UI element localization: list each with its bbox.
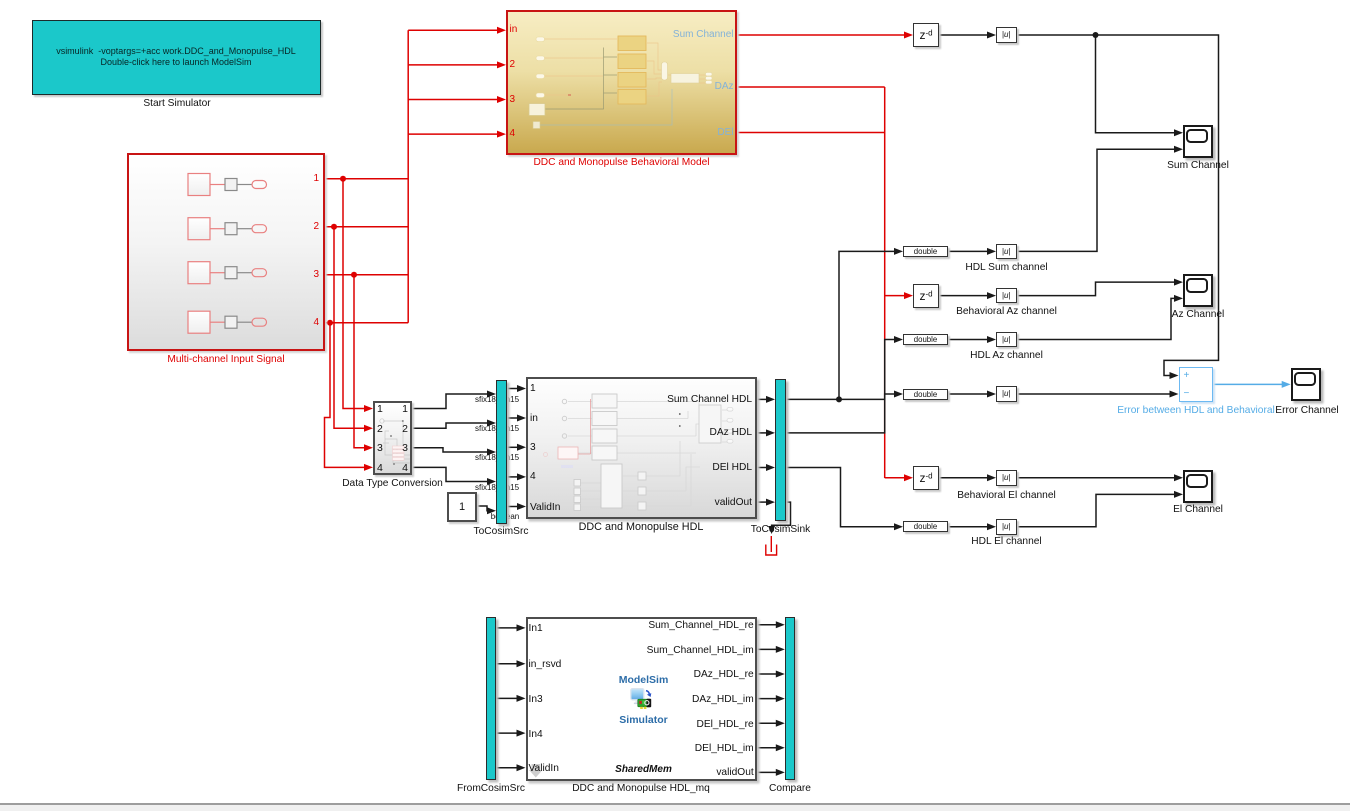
- behavioral mini diagram: [544, 39, 706, 96]
- port label In4: [529, 730, 543, 740]
- wire: DTC out1 to ToCosimSrc: [412, 394, 488, 409]
- port label ValidIn: [530, 503, 560, 513]
- wire: HDL out to ToCosimSink y=502.1: [757, 501, 768, 503]
- port label In1: [529, 624, 543, 634]
- label Data Type Conversion: [322, 478, 463, 489]
- wire: validOut wrap-around stub: [772, 502, 791, 526]
- label Error Channel: [1262, 405, 1350, 416]
- wire: source port 2 to bus: [325, 226, 408, 228]
- port label DAz_HDL_im: [692, 695, 754, 705]
- abs block |u| y=295.6: [996, 288, 1017, 304]
- label DDC and Monopulse HDL_mq: [551, 783, 731, 794]
- scope Az Channel: [1183, 274, 1213, 307]
- wire: source port 1 to bus: [325, 178, 408, 180]
- wire: bus to behavioral port 3: [408, 99, 498, 101]
- wire: sink out2 up to double2 HDL Az: [786, 340, 895, 433]
- port label 3: [510, 95, 516, 105]
- port label 2: [510, 60, 516, 70]
- port label validOut: [716, 768, 753, 778]
- wire: ToCosimSrc out to HDL port y=418: [506, 417, 518, 419]
- block Data Type Conversion: [373, 401, 412, 476]
- port label DAz HDL: [710, 428, 752, 438]
- text ModelSim: [588, 674, 700, 686]
- wire label boolean: [470, 512, 540, 521]
- label Behavioral El channel: [946, 490, 1067, 501]
- label Compare: [750, 783, 830, 794]
- port label In3: [529, 695, 543, 705]
- signal-spec bar ToCosimSink: [775, 379, 786, 521]
- wire: delay to abs y=477.8: [939, 477, 988, 479]
- icon ModelSim simulator: [630, 688, 656, 713]
- port label in_rsvd: [529, 660, 562, 670]
- abs block |u| y=339.5: [996, 332, 1017, 348]
- subsystem DDC and Monopulse HDL: [526, 377, 757, 519]
- label Start Simulator: [97, 98, 257, 109]
- port label DEl_HDL_re: [697, 720, 754, 730]
- wire: DTC out2 to ToCosimSrc: [412, 423, 488, 428]
- port 2 in: [377, 424, 383, 435]
- wire: DTC out4 to ToCosimSrc: [412, 467, 488, 481]
- delay block Z2 z^-d: [913, 284, 939, 308]
- port 4 out: [402, 463, 408, 474]
- abs block |u| y=526.8: [996, 519, 1017, 535]
- signal-spec bar ToCosimSrc: [496, 380, 507, 524]
- DTC mini diagram: [380, 418, 415, 462]
- port label 3: [530, 443, 536, 453]
- scope El Channel: [1183, 470, 1213, 503]
- scope Error Channel: [1291, 368, 1321, 401]
- wire: abs4 to sum - input: [1017, 393, 1171, 395]
- wire label sfix18_En15 y=482.7: [462, 483, 532, 492]
- source icon row cy=182.5: [188, 174, 210, 196]
- wire: abs1 out long route to sum + input: [1017, 35, 1219, 376]
- port label Sum Channel: [673, 30, 734, 40]
- wire: HDL_mq out to Compare y=624.8: [757, 624, 777, 626]
- wire: Behavioral El abs to El scope in1: [1017, 477, 1176, 479]
- wire: HDL out to ToCosimSink y=399.4: [757, 398, 768, 400]
- wire: source port 4 to bus: [325, 322, 408, 324]
- HDL mini diagram: [568, 402, 728, 508]
- port label 1: [530, 384, 536, 394]
- wire: HDL El abs to El scope in2: [1017, 494, 1176, 526]
- block Start Simulator: [32, 20, 321, 95]
- port label Sum_Channel_HDL_im: [647, 646, 754, 656]
- port label 3: [313, 270, 319, 280]
- wire: HDL_mq out to Compare y=723.2: [757, 722, 777, 724]
- wire label sfix18_En15 y=453.2: [462, 453, 532, 462]
- wire: HDL Az abs to Az scope in2: [1017, 298, 1176, 339]
- port label 4: [530, 472, 536, 482]
- data type display block double y=251.4: [903, 246, 948, 257]
- signal-spec bar Compare: [785, 617, 796, 780]
- abs block |u| y=477.8: [996, 470, 1017, 486]
- wire: HDL Sum abs to Sum scope in2: [1017, 149, 1176, 251]
- wire: HDL_mq out to Compare y=649.4: [757, 648, 777, 650]
- wire: ToCosimSrc out to HDL port y=388.5: [506, 388, 518, 390]
- junction dot port1: [340, 176, 346, 182]
- junction dot port2: [331, 224, 337, 230]
- wire: HDL_mq out to Compare y=772.4: [757, 771, 777, 773]
- wire label sfix18_En15 y=424.2: [462, 424, 532, 433]
- port label Sum Channel HDL: [667, 395, 752, 405]
- label FromCosimSrc: [434, 783, 548, 794]
- wire: HDL_mq out to Compare y=747.8: [757, 747, 777, 749]
- source icon row cy=270.7: [188, 262, 210, 284]
- wire: Sum Channel out to delay Z1: [737, 34, 905, 36]
- data type display block double y=394: [903, 389, 948, 400]
- label HDL Sum channel: [956, 262, 1057, 273]
- wire: ToCosimSrc out to HDL port y=476.9: [506, 476, 518, 478]
- subsystem DDC and Monopulse Behavioral Model: [506, 10, 737, 155]
- wire: HDL out to ToCosimSink y=467.5: [757, 467, 768, 469]
- port 1 in: [377, 404, 383, 415]
- port label DEl HDL: [712, 463, 752, 473]
- wire: double to abs y=339.5: [948, 339, 988, 341]
- label Error between HDL and Behavioral: [1110, 405, 1282, 416]
- wire: FromCosimSrc to HDL_mq in y=663.8: [496, 663, 518, 665]
- wire: delay to abs y=295.6: [939, 295, 988, 297]
- data type display block double y=526.8: [903, 521, 948, 532]
- wire: branch down to Sum scope in1: [1096, 35, 1176, 133]
- wire: bus to behavioral port in: [408, 29, 498, 31]
- wire: branch port3 down to DTC in3: [354, 275, 365, 448]
- port 4 in: [377, 463, 383, 474]
- wire: FromCosimSrc to HDL_mq in y=733.1: [496, 732, 518, 734]
- abs block |u| y=394: [996, 386, 1017, 402]
- port label 2: [313, 222, 319, 232]
- port label validOut: [715, 498, 752, 508]
- wire: DEl out to red vertical: [737, 132, 885, 134]
- port label 1: [313, 174, 319, 184]
- label El Channel: [1148, 504, 1248, 515]
- port label Sum_Channel_HDL_re: [648, 621, 753, 631]
- abs block |u| y=251.4: [996, 244, 1017, 260]
- wire: HDL_mq out to Compare y=674.0: [757, 673, 777, 675]
- wire: double to abs y=251.4: [948, 250, 988, 252]
- junction dot abs1 out: [1093, 32, 1099, 38]
- wire: branch to delay Z3 (Behavioral El): [885, 477, 905, 479]
- port label 4: [510, 129, 516, 139]
- delay block Z1 z^-d: [913, 23, 939, 47]
- wire: branch port4 down to DTC in4: [325, 323, 366, 468]
- port label ValidIn: [529, 764, 559, 774]
- label ToCosimSrc: [451, 526, 551, 537]
- port label in: [510, 25, 518, 35]
- port label DEl_HDL_im: [695, 744, 754, 754]
- wire label sfix18_En15 y=395.2: [462, 395, 532, 404]
- label HDL Az channel: [956, 350, 1057, 361]
- wire: red vertical bus x=408: [407, 30, 409, 323]
- label Az Channel: [1148, 309, 1248, 320]
- wire: Behavioral Az abs to Az scope in1: [1017, 282, 1176, 296]
- wire: sum output to Error scope (blue): [1213, 383, 1283, 385]
- red open-arrow bracket: [766, 545, 777, 556]
- source icon row cy=226.7: [188, 218, 210, 240]
- wire: FromCosimSrc to HDL_mq in y=698.4: [496, 697, 518, 699]
- wire: HDL out to ToCosimSink y=432.9: [757, 432, 768, 434]
- wire: sink out1 to double4 (error path): [786, 394, 895, 399]
- label DDC and Monopulse Behavioral Model: [501, 157, 742, 168]
- port 3 in: [377, 443, 383, 454]
- label HDL El channel: [956, 536, 1057, 547]
- gray down arrow affordance: [529, 764, 545, 782]
- wire: branch port1 down to DTC in1: [343, 179, 365, 409]
- port label in: [530, 414, 538, 424]
- source icon row cy=320.2: [188, 311, 210, 333]
- text SharedMem: [588, 764, 700, 775]
- wire: bus to behavioral port 4: [408, 133, 498, 135]
- wire: ToCosimSrc out to HDL port y=506.5: [506, 506, 518, 508]
- junction dot port4: [327, 320, 333, 326]
- wire: bus to behavioral port 2: [408, 64, 498, 66]
- port 3 out: [402, 443, 408, 454]
- junction dot sink out1: [836, 396, 842, 402]
- wire: double to abs y=526.8: [948, 526, 988, 528]
- red dangling line below sink: [770, 536, 772, 552]
- port label DAz_HDL_re: [694, 670, 754, 680]
- wire: HDL_mq out to Compare y=698.6: [757, 698, 777, 700]
- wire: DAz out to red vertical: [737, 86, 885, 88]
- subsystem Multi-channel Input Signal: [127, 153, 325, 351]
- port 2 out: [402, 424, 408, 435]
- label Behavioral Az channel: [946, 306, 1067, 317]
- label DDC and Monopulse HDL: [561, 521, 721, 533]
- scope Sum Channel: [1183, 125, 1213, 158]
- wire: branch up to double1 HDL Sum: [839, 251, 895, 399]
- sum block Error between HDL and Behavioral: [1179, 367, 1214, 402]
- port 1 out: [402, 404, 408, 415]
- data type display block double y=339.5: [903, 334, 948, 345]
- block DDC and Monopulse HDL_mq (ModelSim cosimulation): [526, 617, 757, 781]
- port label DAz: [715, 82, 734, 92]
- bottom window edge strip: [0, 803, 1350, 805]
- wire: branch port2 down to DTC in2: [334, 227, 365, 428]
- wire: FromCosimSrc to HDL_mq in y=627.9: [496, 627, 518, 629]
- wire: branch to delay Z2 (Behavioral Az): [885, 295, 905, 297]
- port label DEl: [717, 128, 733, 138]
- wire: DTC out3 to ToCosimSrc: [412, 448, 488, 452]
- wire: constant to ToCosimSrc ValidIn: [477, 506, 488, 511]
- text Simulator: [588, 714, 700, 726]
- label Multi-channel Input Signal: [126, 354, 326, 365]
- label Sum Channel: [1148, 160, 1248, 171]
- wire: delay to abs y=35: [939, 34, 988, 36]
- signal-spec bar FromCosimSrc: [486, 617, 497, 780]
- wire: red vertical x=884.7: [884, 87, 886, 478]
- wire: FromCosimSrc to HDL_mq in y=767.7: [496, 767, 518, 769]
- constant block 1: [447, 492, 477, 522]
- delay block Z3 z^-d: [913, 466, 939, 490]
- label ToCosimSink: [730, 524, 831, 535]
- junction dot port3: [351, 272, 357, 278]
- wire: double to abs y=394: [948, 393, 988, 395]
- port label 4: [313, 318, 319, 328]
- wire: ToCosimSrc out to HDL port y=447.3: [506, 446, 518, 448]
- abs block |u| y=35: [996, 27, 1017, 43]
- wire: source port 3 to bus: [325, 274, 408, 276]
- wire: sink out3 down to double3 HDL El: [786, 468, 895, 527]
